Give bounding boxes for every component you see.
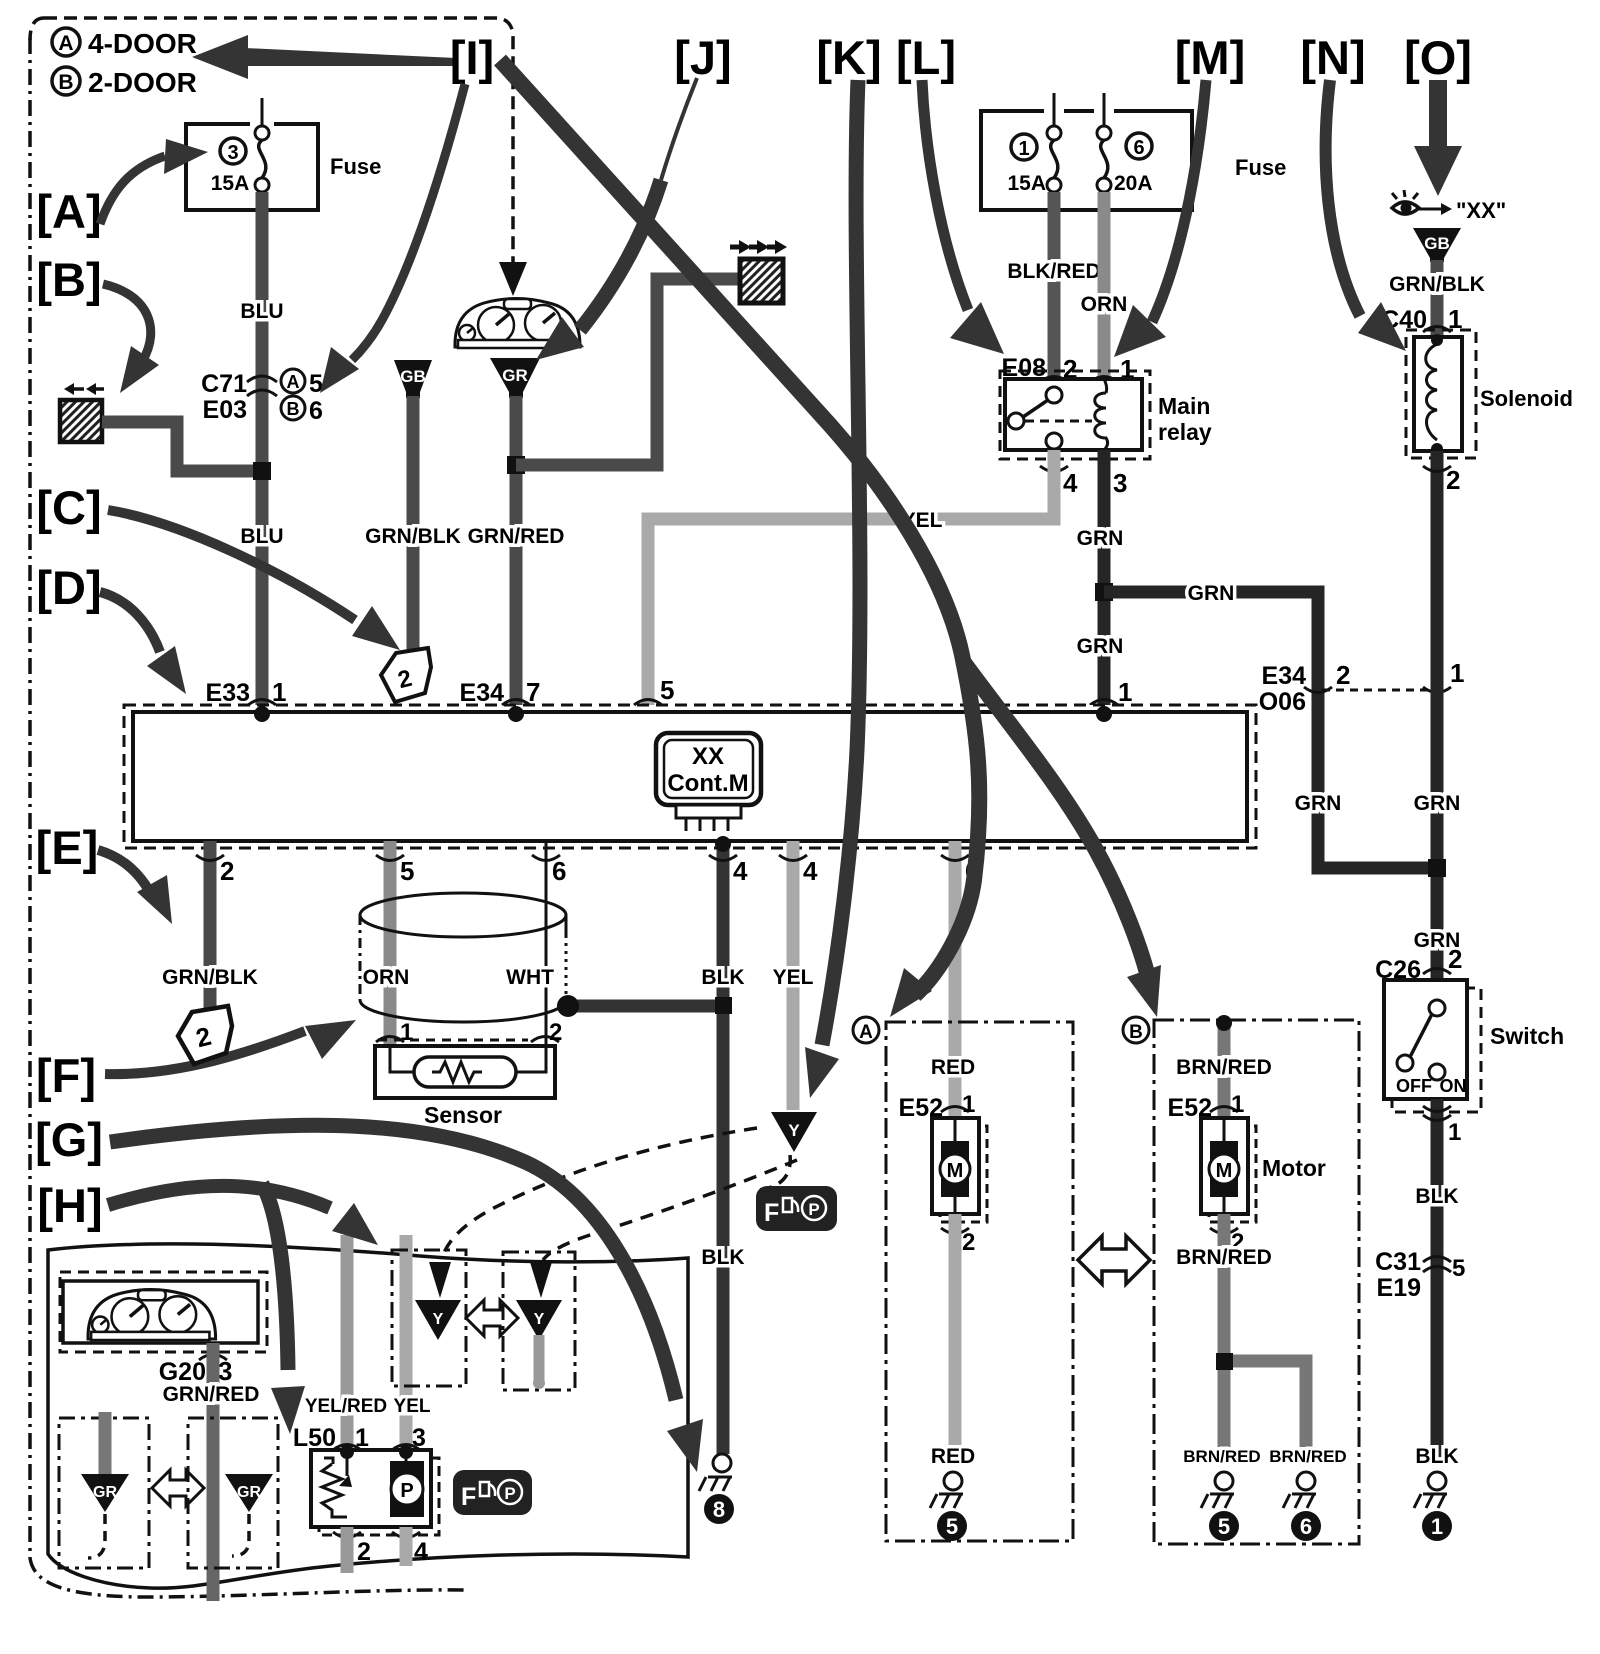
svg-text:Main: Main xyxy=(1158,393,1210,419)
pentagon flag 2 (upper) xyxy=(381,648,431,702)
svg-text:[N]: [N] xyxy=(1300,31,1365,84)
GR receiver box (right) xyxy=(188,1418,278,1568)
svg-text:Switch: Switch xyxy=(1490,1023,1564,1049)
arrow A xyxy=(100,139,208,224)
svg-text:XX: XX xyxy=(692,743,724,770)
svg-text:2: 2 xyxy=(962,1229,975,1256)
wire ORN fuse6 to relay pin1 xyxy=(1098,192,1111,382)
svg-text:A: A xyxy=(287,372,300,392)
wire BLK/RED fuse1 to relay pin2 xyxy=(1048,192,1061,382)
svg-text:[H]: [H] xyxy=(37,1179,102,1232)
svg-text:4-DOOR: 4-DOOR xyxy=(88,28,197,59)
junction on GR wire to component-3 xyxy=(507,456,525,474)
svg-text:5: 5 xyxy=(400,856,414,886)
svg-text:1: 1 xyxy=(1431,1514,1443,1539)
svg-text:BLK/RED: BLK/RED xyxy=(1007,260,1100,283)
svg-text:1: 1 xyxy=(1450,658,1464,688)
arrow H xyxy=(108,1184,378,1434)
svg-text:OFF: OFF xyxy=(1396,1076,1432,1096)
junction on GRN wire xyxy=(1095,583,1113,601)
fuse F3 box xyxy=(186,98,381,210)
svg-text:20A: 20A xyxy=(1114,172,1153,195)
svg-text:BRN/RED: BRN/RED xyxy=(1269,1447,1346,1466)
dashed hook from Y to fuel icon xyxy=(758,1155,790,1190)
svg-text:YEL/RED: YEL/RED xyxy=(305,1396,387,1417)
svg-text:RED: RED xyxy=(931,1445,975,1468)
fuse box F1/F6 xyxy=(981,93,1286,210)
wire BLK switch to ground 1 xyxy=(1431,1099,1444,1458)
arrow I fork to B xyxy=(962,660,1161,1017)
arrow E xyxy=(98,850,172,924)
svg-text:GR: GR xyxy=(237,1484,261,1501)
svg-text:4: 4 xyxy=(414,1538,428,1566)
double arrow between Y boxes xyxy=(466,1300,518,1336)
svg-text:E03: E03 xyxy=(203,396,247,424)
svg-text:Y: Y xyxy=(788,1121,800,1140)
svg-text:1: 1 xyxy=(355,1424,369,1452)
wire GRN/RED from GR funnel to module pin E34-7 xyxy=(510,396,523,712)
relay pin4 label xyxy=(1040,466,1068,472)
svg-text:1: 1 xyxy=(1231,1091,1244,1118)
wire GRN/BLK module pin2 xyxy=(204,841,217,1008)
wire BLK module pin4 to ground 8 xyxy=(717,841,730,1454)
svg-text:Cont.M: Cont.M xyxy=(667,770,748,797)
fuel gauge icon (right) xyxy=(756,1186,837,1231)
svg-text:YEL: YEL xyxy=(394,1396,431,1417)
pentagon flag 2 (lower) xyxy=(178,1006,232,1064)
svg-text:2: 2 xyxy=(1448,944,1462,974)
arrow N xyxy=(1326,80,1406,351)
svg-text:YEL: YEL xyxy=(773,966,814,989)
wire GRN/RED from cluster G20 down xyxy=(207,1343,220,1601)
svg-text:M: M xyxy=(947,1160,964,1182)
svg-text:GRN/BLK: GRN/BLK xyxy=(1389,273,1485,296)
svg-text:E33: E33 xyxy=(206,679,250,707)
svg-text:M: M xyxy=(1216,1160,1233,1182)
svg-text:3: 3 xyxy=(1113,468,1127,498)
svg-text:A: A xyxy=(859,1022,873,1043)
arrow I to connector C71 xyxy=(320,84,465,393)
svg-text:GRN/BLK: GRN/BLK xyxy=(365,525,461,548)
svg-text:E19: E19 xyxy=(1377,1274,1421,1302)
svg-text:GRN/BLK: GRN/BLK xyxy=(162,966,258,989)
Y funnel symbol xyxy=(771,1112,817,1152)
svg-text:1: 1 xyxy=(1448,1119,1461,1146)
svg-text:1: 1 xyxy=(1018,138,1029,160)
GB funnel (solenoid column) xyxy=(1413,228,1461,262)
svg-text:GB: GB xyxy=(400,367,426,386)
svg-text:[B]: [B] xyxy=(36,253,101,306)
L50 connector labels xyxy=(293,1424,426,1452)
svg-text:BLK: BLK xyxy=(1415,1185,1458,1208)
fuel sender L50 xyxy=(311,1445,439,1535)
arrow F xyxy=(105,1020,356,1074)
svg-text:C31: C31 xyxy=(1375,1248,1421,1276)
connector C26 pin2 xyxy=(1375,944,1462,984)
svg-text:P: P xyxy=(504,1484,515,1503)
svg-text:3: 3 xyxy=(227,142,238,164)
svg-text:ORN: ORN xyxy=(1081,293,1128,316)
wire WHT module pin6 to sensor pin2 xyxy=(545,841,548,1046)
svg-text:[O]: [O] xyxy=(1404,31,1472,84)
LEGEND 4-DOOR / 2-DOOR xyxy=(52,28,197,98)
arrow K xyxy=(805,80,860,1098)
svg-text:[I]: [I] xyxy=(450,31,494,84)
svg-text:15A: 15A xyxy=(211,172,250,195)
svg-text:BRN/RED: BRN/RED xyxy=(1176,1056,1272,1079)
svg-text:[G]: [G] xyxy=(35,1113,103,1166)
wire ORN module pin5 to sensor pin1 xyxy=(384,841,397,1046)
svg-text:GRN: GRN xyxy=(1295,792,1342,815)
arrow G xyxy=(110,1125,703,1472)
hatched component 3 xyxy=(730,240,787,303)
connector G20 pin3 xyxy=(159,1355,233,1387)
left dash-dot page border xyxy=(30,38,466,1597)
Y receiver box (left) xyxy=(392,1250,466,1386)
svg-text:GR: GR xyxy=(502,366,528,385)
svg-text:2: 2 xyxy=(220,856,234,886)
fuel gauge icon (panel) xyxy=(453,1470,532,1515)
wire YEL module pin4b to Y symbol xyxy=(787,841,800,1110)
svg-text:GRN: GRN xyxy=(1414,792,1461,815)
svg-text:B: B xyxy=(287,399,300,419)
svg-text:Fuse: Fuse xyxy=(330,154,381,179)
svg-text:5: 5 xyxy=(309,370,323,398)
svg-text:[D]: [D] xyxy=(36,561,101,614)
wire BLU from fuse to module pin E33-1 xyxy=(256,192,269,712)
dashed curve to left Y box xyxy=(442,1128,757,1258)
svg-text:2: 2 xyxy=(549,1019,562,1046)
svg-text:2: 2 xyxy=(1336,660,1350,690)
svg-text:relay: relay xyxy=(1158,419,1212,445)
svg-text:5: 5 xyxy=(660,675,674,705)
svg-text:15A: 15A xyxy=(1007,172,1046,195)
connector E08 labels xyxy=(1002,354,1135,384)
svg-text:6: 6 xyxy=(1300,1514,1312,1539)
sensor pins 1,2 xyxy=(376,1037,404,1043)
svg-text:BLK: BLK xyxy=(701,966,744,989)
svg-text:6: 6 xyxy=(552,856,566,886)
svg-text:[J]: [J] xyxy=(674,31,731,84)
svg-text:GRN: GRN xyxy=(1077,527,1124,550)
svg-text:B: B xyxy=(1129,1022,1143,1043)
dashed arrowhead to gauge cluster xyxy=(499,262,527,296)
GR receiver box (left) xyxy=(59,1412,149,1568)
svg-text:[A]: [A] xyxy=(36,185,101,238)
control module XX Cont.M xyxy=(124,705,1256,848)
wire YEL relay pin4 to module pin5 xyxy=(648,450,1054,712)
ground 1 xyxy=(1414,1472,1452,1541)
arrow C xyxy=(108,510,400,650)
svg-text:GR: GR xyxy=(93,1484,117,1501)
svg-text:Solenoid: Solenoid xyxy=(1480,386,1573,411)
junction GRN at solenoid column xyxy=(1428,859,1446,877)
svg-text:GRN: GRN xyxy=(1077,635,1124,658)
svg-text:BRN/RED: BRN/RED xyxy=(1176,1246,1272,1269)
svg-text:4: 4 xyxy=(733,856,748,886)
svg-text:2-DOOR: 2-DOOR xyxy=(88,67,197,98)
svg-text:P: P xyxy=(808,1200,819,1219)
svg-text:Motor: Motor xyxy=(1262,1155,1326,1181)
arrow L xyxy=(922,80,1004,354)
solenoid xyxy=(1406,330,1573,458)
wire from hatched component to BLU junction xyxy=(102,422,258,471)
wire to hatched component 3 xyxy=(516,279,740,465)
wire YEL/RED to L50 pin1 xyxy=(341,1235,354,1452)
svg-text:4: 4 xyxy=(1063,468,1078,498)
svg-text:WHT: WHT xyxy=(506,966,554,989)
wire GRN/BLK from GB funnel xyxy=(407,396,420,660)
svg-text:GB: GB xyxy=(1424,234,1450,253)
svg-text:BLK: BLK xyxy=(1415,1445,1458,1468)
svg-text:E34: E34 xyxy=(1262,662,1307,690)
svg-text:L50: L50 xyxy=(293,1424,336,1452)
svg-text:GRN/RED: GRN/RED xyxy=(468,525,565,548)
arrow O xyxy=(1414,80,1462,196)
svg-text:Y: Y xyxy=(433,1311,444,1328)
double arrow between motor units xyxy=(1078,1236,1150,1284)
svg-text:4: 4 xyxy=(803,856,818,886)
svg-text:[L]: [L] xyxy=(896,31,956,84)
svg-text:Y: Y xyxy=(534,1311,545,1328)
svg-text:ON: ON xyxy=(1440,1076,1467,1096)
svg-text:"XX": "XX" xyxy=(1456,198,1506,223)
connector E34/O06 xyxy=(1259,658,1465,716)
ground 8 xyxy=(699,1454,734,1524)
svg-text:E34: E34 xyxy=(460,679,505,707)
arrow J xyxy=(536,78,697,360)
svg-text:C71: C71 xyxy=(201,370,247,398)
svg-text:1: 1 xyxy=(400,1019,413,1046)
svg-text:1: 1 xyxy=(1118,677,1132,707)
svg-text:A: A xyxy=(58,32,73,55)
dotted sensor case wire xyxy=(565,935,568,998)
svg-text:ORN: ORN xyxy=(363,966,410,989)
svg-text:6: 6 xyxy=(309,397,323,425)
L50 bottom pins xyxy=(333,1532,361,1538)
svg-text:O06: O06 xyxy=(1259,688,1306,716)
svg-text:F: F xyxy=(461,1483,476,1511)
svg-text:GRN: GRN xyxy=(1188,582,1235,605)
svg-text:BLK: BLK xyxy=(701,1246,744,1269)
Y receiver box (right) xyxy=(503,1252,575,1390)
sensor resistor box xyxy=(375,1046,555,1128)
double arrow between GR boxes xyxy=(152,1470,204,1506)
component (hatched) fed from BLU xyxy=(60,383,104,442)
motor unit B (2-door) xyxy=(1123,1015,1359,1544)
svg-text:[E]: [E] xyxy=(36,821,99,874)
svg-text:[F]: [F] xyxy=(36,1049,96,1102)
arrow I long diagonal to A xyxy=(500,60,979,1017)
svg-text:2: 2 xyxy=(357,1538,371,1566)
wire RED module pin6b to motor A xyxy=(949,841,962,1120)
arrow from I to legend xyxy=(192,35,456,79)
wire GRN solenoid pin2 down to switch xyxy=(1431,451,1444,982)
arrow M xyxy=(1114,80,1206,357)
svg-text:8: 8 xyxy=(713,1497,725,1522)
module top pin markers xyxy=(248,700,276,706)
svg-text:1: 1 xyxy=(962,1091,975,1118)
connector C31/E19 pin5 xyxy=(1375,1248,1465,1302)
svg-text:6: 6 xyxy=(1133,137,1144,159)
svg-text:BLU: BLU xyxy=(240,300,283,323)
svg-text:Sensor: Sensor xyxy=(424,1102,502,1128)
svg-text:B: B xyxy=(58,71,73,94)
main relay xyxy=(1000,371,1212,459)
svg-text:Fuse: Fuse xyxy=(1235,155,1286,180)
gauge cluster icon (top) xyxy=(455,299,580,349)
connector C71/E03 on BLU wire xyxy=(201,369,323,425)
dashboard panel outline xyxy=(48,1244,688,1588)
GR funnel symbol below cluster xyxy=(490,358,540,398)
svg-text:1: 1 xyxy=(272,677,286,707)
switch xyxy=(1384,980,1564,1112)
svg-text:F: F xyxy=(764,1199,779,1227)
wire GRN branch to solenoid column xyxy=(1104,592,1437,868)
svg-text:7: 7 xyxy=(526,677,540,707)
svg-text:BRN/RED: BRN/RED xyxy=(1183,1447,1260,1466)
svg-text:5: 5 xyxy=(946,1514,958,1539)
svg-text:[K]: [K] xyxy=(816,31,881,84)
GB funnel symbol to gauge xyxy=(394,360,432,398)
instrument cluster assembly xyxy=(60,1272,267,1352)
svg-text:2: 2 xyxy=(1446,465,1460,495)
svg-text:RED: RED xyxy=(931,1056,975,1079)
svg-text:BLU: BLU xyxy=(240,525,283,548)
svg-text:3: 3 xyxy=(218,1356,232,1386)
svg-text:3: 3 xyxy=(412,1424,426,1452)
dashed curve to right Y box xyxy=(543,1160,797,1260)
wire BLK horizontal to sensor case xyxy=(568,1000,723,1013)
arrow B xyxy=(103,284,159,393)
wire YEL to L50 pin3 xyxy=(400,1235,413,1452)
connector C40 pin1 xyxy=(1381,304,1462,334)
sensor body (cylinder) xyxy=(360,893,566,1022)
wire GRN/BLK to solenoid xyxy=(1431,260,1444,340)
top dashed legend border xyxy=(30,18,513,262)
motor unit A (4-door) xyxy=(853,1017,1073,1541)
svg-text:GRN/RED: GRN/RED xyxy=(163,1383,260,1406)
svg-text:5: 5 xyxy=(1452,1255,1465,1282)
svg-text:P: P xyxy=(400,1480,413,1502)
module pin1 chevron and label xyxy=(1090,700,1118,706)
svg-text:5: 5 xyxy=(1218,1514,1230,1539)
svg-text:[C]: [C] xyxy=(36,481,101,534)
eye symbol with XX note xyxy=(1392,190,1506,223)
arrow D xyxy=(100,592,186,694)
wire GRN relay pin3 down xyxy=(1098,450,1111,712)
svg-text:[M]: [M] xyxy=(1175,31,1245,84)
svg-text:G20: G20 xyxy=(159,1358,206,1386)
